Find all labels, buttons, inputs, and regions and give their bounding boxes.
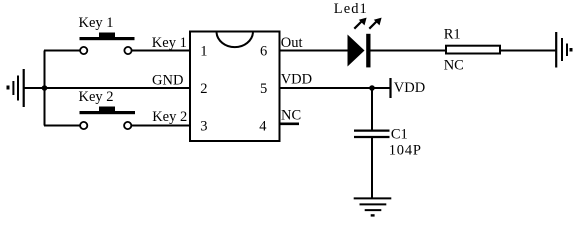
svg-text:Led1: Led1 [334, 1, 367, 17]
svg-text:Key 1: Key 1 [79, 15, 114, 31]
wire (GND row: bus to pin 2) [44, 87, 190, 89]
wire (LED cathode to R1) [370, 50, 446, 52]
svg-text:2: 2 [200, 81, 207, 97]
svg-text:6: 6 [260, 43, 267, 59]
pin 4 stub (no connect) [280, 123, 299, 126]
junction node (left bus to ground) [42, 85, 48, 91]
svg-text:Key 2: Key 2 [79, 89, 114, 105]
wire (pin 6 Out to LED anode) [280, 50, 349, 52]
LED Led1 [348, 18, 382, 68]
wire (bus to Key1 left terminal) [44, 50, 80, 52]
switch Key2 (push button) [80, 107, 136, 130]
capacitor C1 [354, 131, 390, 137]
ground GND (right chassis ground) [556, 32, 571, 68]
resistor R1 [446, 46, 500, 54]
svg-text:VDD: VDD [281, 71, 312, 87]
svg-text:5: 5 [260, 81, 267, 97]
svg-text:3: 3 [200, 118, 207, 134]
svg-text:R1: R1 [444, 26, 461, 42]
wire (C1 bottom plate to earth ground) [371, 138, 373, 199]
svg-text:NC: NC [281, 108, 301, 124]
svg-text:1: 1 [200, 43, 207, 59]
wire (bus to Key2 left terminal) [44, 125, 80, 127]
svg-text:NC: NC [444, 57, 464, 73]
switch Key1 (push button) [80, 33, 135, 55]
wire (left vertical bus) [44, 51, 46, 126]
ground GND (bottom earth ground) [354, 198, 392, 215]
wire (pin 5 VDD to power bar) [280, 87, 391, 89]
svg-text:Key 2: Key 2 [152, 109, 187, 125]
svg-text:C1: C1 [391, 126, 408, 142]
wire (junction down to C1 top plate) [371, 88, 373, 130]
svg-text:GND: GND [152, 72, 183, 88]
junction node (VDD to C1) [369, 85, 375, 91]
wire (Key1 right terminal to pin 1) [132, 50, 190, 52]
wire (Key2 right terminal to pin 3) [132, 125, 191, 127]
svg-text:104P: 104P [389, 143, 421, 159]
ground GND (left chassis ground) [8, 69, 44, 107]
svg-text:Out: Out [281, 35, 303, 51]
power VDD (bar symbol) [389, 78, 391, 98]
svg-text:VDD: VDD [394, 80, 425, 96]
svg-text:4: 4 [259, 118, 267, 134]
wire (R1 to right ground) [500, 50, 556, 52]
svg-text:Key 1: Key 1 [152, 35, 187, 51]
IC U1 (6-pin body with notch) [190, 32, 280, 142]
